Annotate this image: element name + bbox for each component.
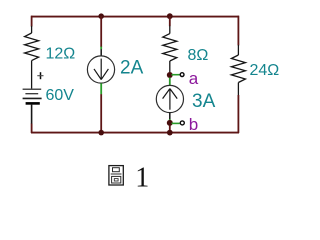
wire 2A branch top <box>100 16 102 47</box>
battery V1 60V <box>23 89 42 103</box>
pin stub black bottom of 3A source <box>169 113 171 120</box>
pin green bottom of 2A source <box>100 83 102 94</box>
junction dot top rail at 8ohm branch <box>167 13 173 19</box>
wire left branch bottom <box>31 124 33 133</box>
junction dot top rail at 2A branch <box>98 13 104 19</box>
svg-text:60V: 60V <box>46 87 75 104</box>
terminal a open circle <box>180 73 184 77</box>
pin green top of 2A source <box>100 47 102 50</box>
resistor R3 24ohm <box>231 45 245 95</box>
resistor R2 8ohm <box>163 26 177 73</box>
wire node b to bottom rail <box>169 125 171 133</box>
svg-text:b: b <box>189 115 198 134</box>
current source I2 3A circle <box>156 85 183 112</box>
svg-text:12Ω: 12Ω <box>46 46 76 63</box>
caption figure character tu drawn strokes <box>109 166 123 185</box>
node a junction dot <box>167 72 173 78</box>
pin stub black top of 2A source <box>100 49 102 56</box>
arrow down inside 2A source <box>94 59 108 80</box>
pin green above node b <box>169 119 171 121</box>
wire 24ohm branch top <box>237 16 239 46</box>
svg-text:8Ω: 8Ω <box>188 47 209 64</box>
svg-text:2A: 2A <box>120 57 144 78</box>
wire 8ohm branch top <box>169 16 171 26</box>
wire green node a to terminal <box>172 74 180 76</box>
node b junction dot <box>167 120 173 126</box>
junction dot bottom rail at 2A branch <box>98 130 104 136</box>
wire top rail <box>31 16 239 18</box>
wire 24ohm branch bottom <box>237 95 239 133</box>
wire 2A branch bottom <box>100 94 102 133</box>
pin green node a to 3A source <box>169 78 171 86</box>
wire bottom rail <box>31 132 239 134</box>
svg-text:1: 1 <box>135 163 149 194</box>
arrow up inside 3A source <box>163 89 178 110</box>
terminal b open circle <box>180 121 184 125</box>
svg-text:a: a <box>189 69 199 88</box>
current source I1 2A circle <box>87 56 114 83</box>
wire left branch top <box>31 16 33 27</box>
svg-text:3A: 3A <box>192 91 216 112</box>
plus sign polarity <box>37 72 43 79</box>
junction dot bottom rail at 8ohm branch <box>167 130 173 136</box>
wire battery to bottom <box>31 105 33 124</box>
wire green node b to terminal <box>172 122 180 124</box>
resistor R1 12ohm <box>25 26 39 89</box>
svg-text:24Ω: 24Ω <box>250 62 280 79</box>
